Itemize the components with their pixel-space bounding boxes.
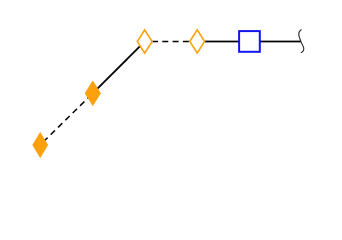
wire: solid bond D2-D3: [93, 42, 145, 94]
wire: solid bond D4-square: [197, 41, 249, 43]
wire: solid bond square-reducing end: [249, 41, 301, 43]
wire: dashed bond D3-D4: [145, 41, 198, 43]
reducing-end squiggle: [299, 30, 304, 53]
node: hollow blue square: [239, 31, 260, 52]
node D4: hollow orange diamond: [190, 30, 205, 53]
wire: dashed bond D1-D2: [40, 93, 93, 145]
node D1: filled orange diamond: [33, 133, 48, 158]
node D3: hollow orange diamond: [137, 30, 152, 53]
node D2: filled orange diamond: [85, 81, 100, 105]
